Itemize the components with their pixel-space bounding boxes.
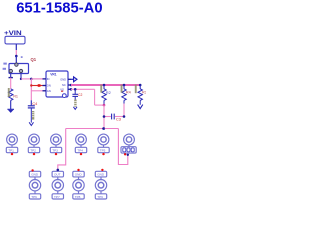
pin numbers left of Q1 bbox=[3, 63, 6, 65]
wire Q1 drain pin to node bbox=[20, 74, 32, 81]
wire vertical node x31 down bbox=[30, 79, 32, 105]
svg-text:GND: GND bbox=[97, 173, 105, 177]
refdes text in row2 boxes bbox=[31, 173, 105, 199]
wire branch left down to TP7 bbox=[58, 129, 66, 170]
wire R2 bottom down bbox=[103, 105, 105, 128]
node dot U1 pin4 bbox=[70, 88, 73, 91]
capacitor C1 bbox=[28, 106, 35, 123]
node dot top of TP5 bbox=[102, 127, 105, 130]
node dot R3 top bbox=[139, 84, 142, 87]
node dot C3 right / R4 bottom bbox=[123, 115, 126, 118]
left pin stubs bbox=[43, 78, 47, 80]
label in J1 box bbox=[123, 148, 134, 152]
pin number 1 (Q1 top) bbox=[21, 56, 23, 58]
capacitor C2 bbox=[72, 89, 78, 99]
ground arrow (C2) bbox=[73, 107, 77, 110]
testpoint TP8 bbox=[73, 171, 84, 199]
resistor R3 bbox=[138, 85, 142, 105]
ground arrow (R3) bbox=[138, 105, 143, 109]
testpoint TP3 bbox=[50, 134, 61, 153]
ground arrow (C1) bbox=[29, 122, 33, 125]
svg-text:TP9: TP9 bbox=[97, 195, 103, 199]
transistor Q1 bbox=[9, 63, 29, 74]
value text (rotated) of R2 bbox=[100, 85, 102, 93]
wire Q1 source pin down bbox=[9, 74, 13, 89]
node dot top of TP7 (wire connection) bbox=[57, 169, 60, 172]
svg-text:TP6: TP6 bbox=[31, 195, 37, 199]
refdes text in row1 boxes bbox=[8, 149, 105, 153]
right pin stubs bbox=[68, 78, 71, 80]
bubble bottom right bbox=[62, 94, 66, 98]
node junction R2 bottom bbox=[103, 104, 106, 107]
node dot C3 left bbox=[103, 115, 106, 118]
value text (rotated) of R4 bbox=[121, 85, 123, 93]
testpoint TP9 bbox=[95, 171, 106, 199]
svg-text:TP1: TP1 bbox=[8, 149, 14, 153]
node dot R4 top bbox=[123, 84, 126, 87]
wire net from J1 bottom: down, left along, to TP7 bbox=[118, 129, 127, 165]
node dot C2 tap bbox=[74, 88, 77, 91]
tiny red mark bbox=[61, 91, 63, 92]
testpoint TP2 bbox=[28, 134, 39, 153]
svg-text:OUT: OUT bbox=[54, 173, 61, 177]
testpoint TP4 bbox=[75, 134, 86, 153]
svg-text:TP8: TP8 bbox=[75, 195, 81, 199]
svg-text:TP3: TP3 bbox=[52, 149, 58, 153]
power flag +VIN box bbox=[5, 36, 25, 44]
node dot under J1 bbox=[127, 154, 129, 156]
wire node to U1 pin IN bbox=[31, 78, 46, 80]
wire node to U1 pin ON (red) bbox=[31, 84, 46, 87]
capacitor C3 (horizontal) bbox=[104, 114, 124, 120]
wire node to U1 pin GND bbox=[31, 90, 46, 92]
connector J1 (wide box) bbox=[121, 134, 136, 153]
testpoint TP6 bbox=[29, 171, 40, 199]
resistor R4 bbox=[122, 85, 126, 117]
svg-text:TP2: TP2 bbox=[30, 149, 36, 153]
wire horizontal at y128.5 bbox=[66, 128, 119, 130]
resistor R1 bbox=[9, 89, 13, 109]
wire +VIN to Q1 bbox=[15, 44, 18, 64]
red pin dots row2 tops bbox=[31, 169, 103, 172]
svg-text:TP7: TP7 bbox=[54, 195, 60, 199]
wire sense: pin4 right, down, right to R2 bottom bbox=[71, 89, 104, 105]
op-amp/regulator U1 bbox=[43, 71, 72, 98]
node junction at x31 bbox=[30, 78, 33, 81]
wire VOUT thick bbox=[71, 84, 140, 86]
testpoint TP1 bbox=[6, 134, 17, 153]
testpoint TP7 bbox=[52, 171, 63, 199]
net flag arrow (U1 out top) bbox=[71, 77, 77, 82]
svg-text:TP5: TP5 bbox=[100, 149, 106, 153]
node junction at (104,128.5) bbox=[103, 127, 106, 130]
value text (rotated) of C1 bbox=[32, 111, 34, 120]
testpoint TP5 bbox=[98, 134, 109, 153]
value text (rotated) of R3 bbox=[135, 85, 137, 94]
ground (R1) bbox=[7, 109, 14, 113]
node dot R2 top bbox=[103, 84, 106, 87]
svg-text:GND: GND bbox=[31, 173, 39, 177]
resistor R2 bbox=[102, 85, 106, 105]
node dot U1 pin5 bbox=[70, 84, 73, 87]
svg-text:GND: GND bbox=[75, 173, 83, 177]
value text (rotated) of R1 bbox=[8, 88, 10, 97]
svg-text:TP4: TP4 bbox=[77, 149, 83, 153]
red pin dots row1 bbox=[11, 153, 127, 156]
value text (rotated) of C2 + ground bbox=[74, 100, 76, 107]
